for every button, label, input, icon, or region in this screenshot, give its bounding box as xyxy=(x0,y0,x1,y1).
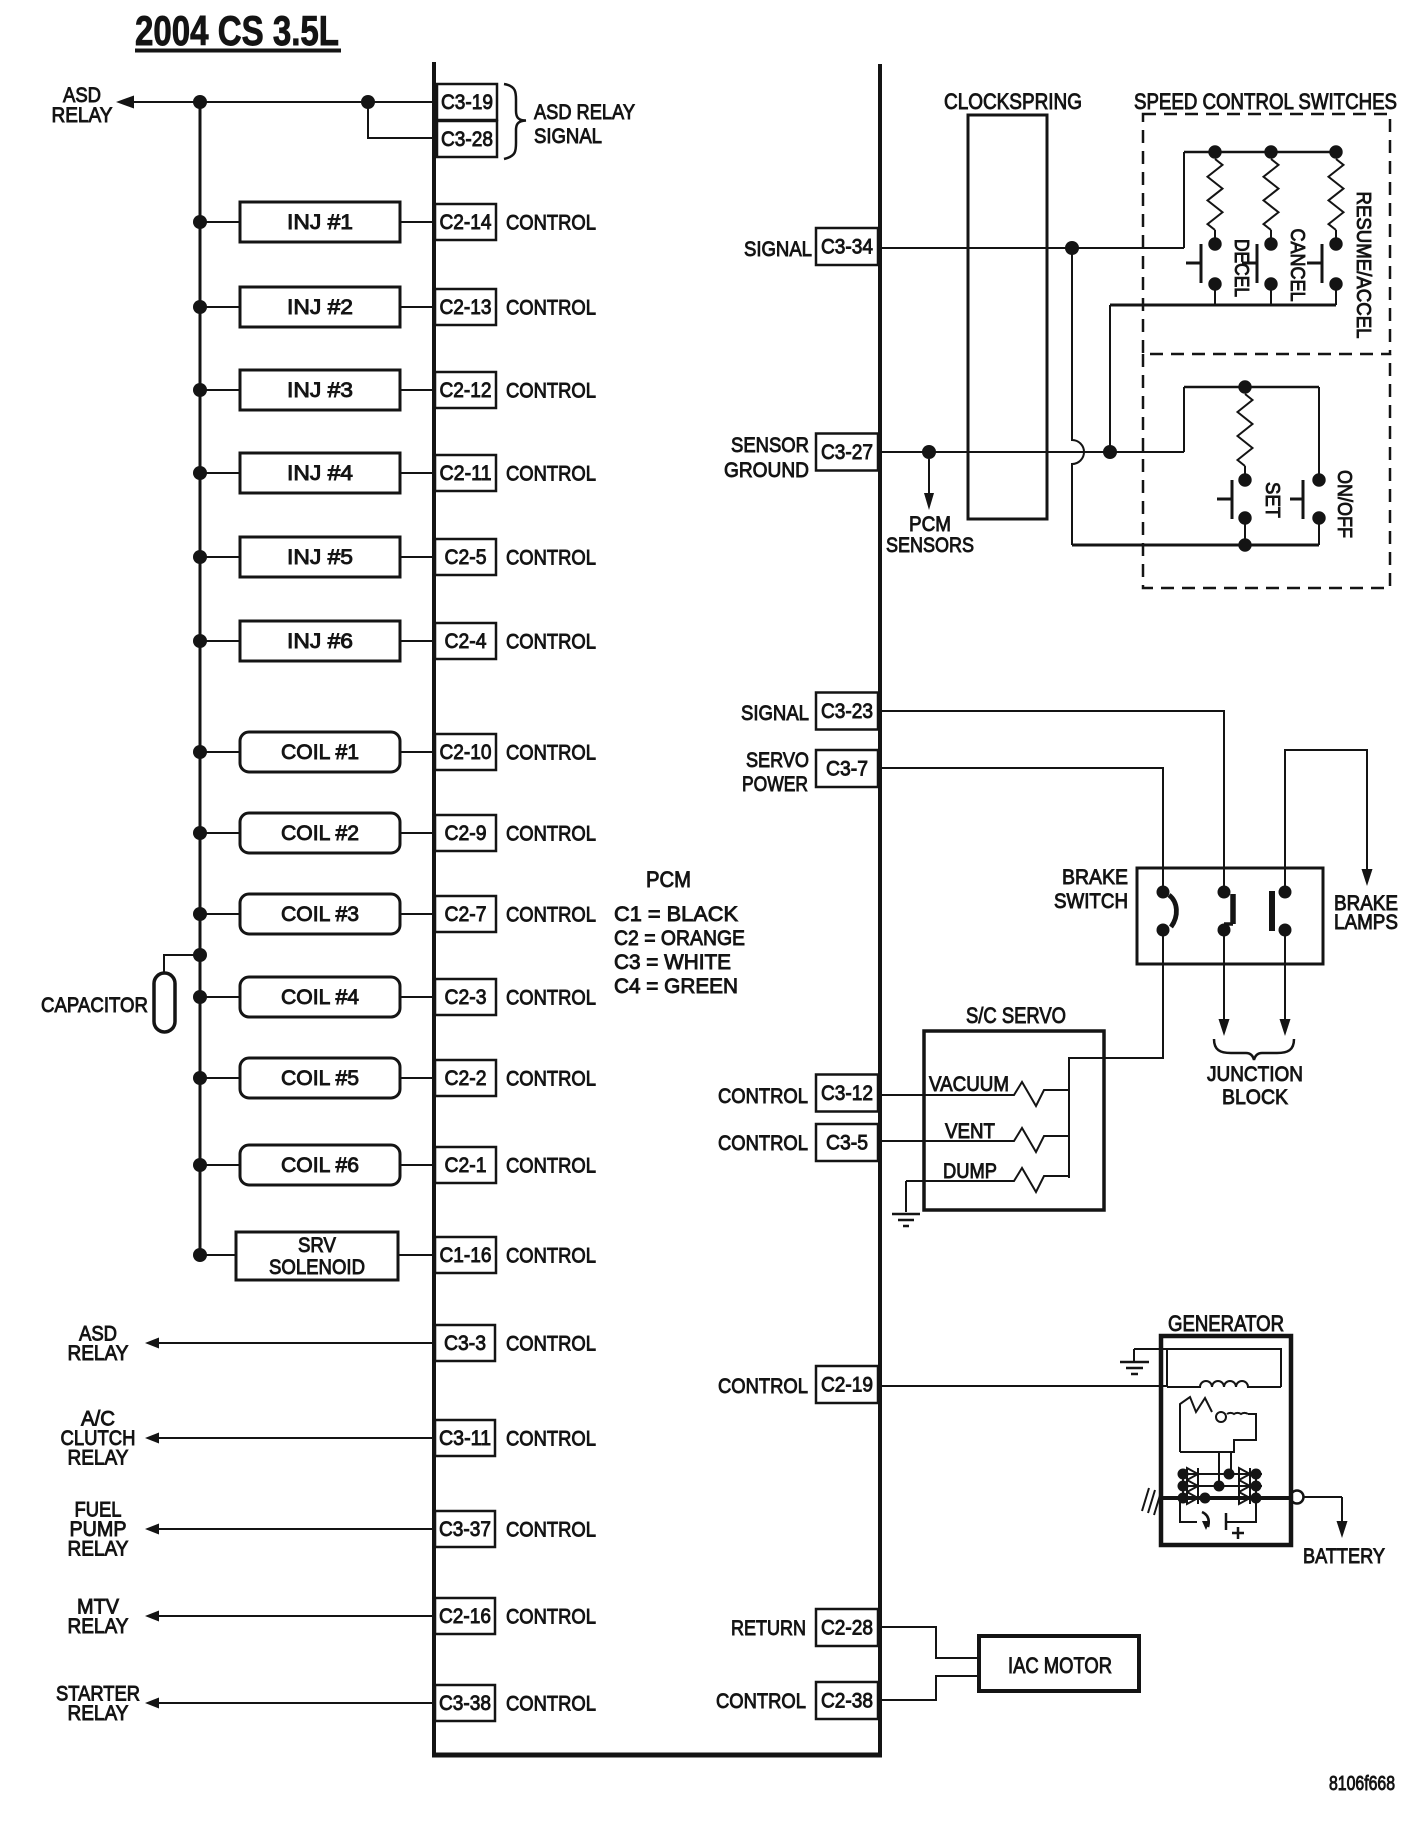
svg-text:SIGNAL: SIGNAL xyxy=(744,238,812,261)
svg-text:CONTROL: CONTROL xyxy=(718,1085,808,1108)
svg-text:C3-11: C3-11 xyxy=(439,1427,491,1450)
svg-text:C2-13: C2-13 xyxy=(440,296,492,319)
svg-text:C2-28: C2-28 xyxy=(821,1617,873,1640)
svg-text:C3-5: C3-5 xyxy=(826,1132,868,1155)
svg-text:C2-12: C2-12 xyxy=(440,379,492,402)
svg-text:C1 = BLACK: C1 = BLACK xyxy=(614,903,738,926)
svg-text:C3-7: C3-7 xyxy=(826,758,868,781)
svg-text:C3-34: C3-34 xyxy=(821,236,873,259)
svg-text:SOLENOID: SOLENOID xyxy=(269,1256,365,1279)
svg-text:C3-23: C3-23 xyxy=(821,700,873,723)
svg-text:GENERATOR: GENERATOR xyxy=(1168,1311,1284,1336)
svg-text:INJ #5: INJ #5 xyxy=(287,546,353,569)
svg-text:C2 = ORANGE: C2 = ORANGE xyxy=(614,927,745,950)
svg-text:SWITCH: SWITCH xyxy=(1054,890,1128,913)
svg-text:CONTROL: CONTROL xyxy=(506,547,596,570)
svg-text:SERVO: SERVO xyxy=(746,749,809,772)
svg-text:INJ #1: INJ #1 xyxy=(287,211,353,234)
svg-text:CONTROL: CONTROL xyxy=(506,1606,596,1629)
svg-text:VACUUM: VACUUM xyxy=(929,1073,1009,1096)
svg-text:RELAY: RELAY xyxy=(68,1538,129,1561)
svg-text:C2-4: C2-4 xyxy=(445,630,487,653)
svg-text:COIL #5: COIL #5 xyxy=(281,1067,359,1090)
svg-text:SPEED CONTROL SWITCHES: SPEED CONTROL SWITCHES xyxy=(1134,89,1397,114)
svg-text:CONTROL: CONTROL xyxy=(506,297,596,320)
svg-text:CONTROL: CONTROL xyxy=(506,823,596,846)
svg-text:C2-19: C2-19 xyxy=(821,1374,873,1397)
svg-text:C3 = WHITE: C3 = WHITE xyxy=(614,951,731,974)
svg-text:CONTROL: CONTROL xyxy=(718,1375,808,1398)
svg-text:C4 = GREEN: C4 = GREEN xyxy=(614,975,738,998)
svg-text:COIL #4: COIL #4 xyxy=(281,986,359,1009)
svg-text:C2-2: C2-2 xyxy=(445,1067,487,1090)
svg-text:BRAKE: BRAKE xyxy=(1062,866,1128,889)
svg-text:C2-1: C2-1 xyxy=(445,1154,487,1177)
svg-text:SIGNAL: SIGNAL xyxy=(741,702,809,725)
svg-text:CONTROL: CONTROL xyxy=(506,631,596,654)
svg-text:C3-12: C3-12 xyxy=(821,1082,873,1105)
svg-text:CONTROL: CONTROL xyxy=(506,1245,596,1268)
svg-text:CAPACITOR: CAPACITOR xyxy=(41,994,148,1017)
svg-text:INJ #2: INJ #2 xyxy=(287,296,353,319)
svg-text:PCM: PCM xyxy=(909,513,951,536)
svg-text:INJ #3: INJ #3 xyxy=(287,379,353,402)
svg-text:SIGNAL: SIGNAL xyxy=(534,125,602,148)
svg-text:CONTROL: CONTROL xyxy=(506,380,596,403)
svg-text:CONTROL: CONTROL xyxy=(506,1519,596,1542)
svg-text:C2-16: C2-16 xyxy=(439,1605,491,1628)
svg-text:RETURN: RETURN xyxy=(731,1617,806,1640)
svg-text:CLOCKSPRING: CLOCKSPRING xyxy=(944,89,1082,114)
svg-text:C3-37: C3-37 xyxy=(439,1518,491,1541)
svg-text:CONTROL: CONTROL xyxy=(506,1428,596,1451)
svg-text:C2-10: C2-10 xyxy=(440,741,492,764)
svg-text:RELAY: RELAY xyxy=(68,1447,129,1470)
svg-text:DUMP: DUMP xyxy=(943,1160,997,1183)
svg-text:RELAY: RELAY xyxy=(68,1615,129,1638)
svg-text:RELAY: RELAY xyxy=(68,1342,129,1365)
svg-text:COIL #6: COIL #6 xyxy=(281,1154,359,1177)
svg-text:ASD RELAY: ASD RELAY xyxy=(534,101,635,124)
svg-text:C3-28: C3-28 xyxy=(441,128,493,151)
svg-text:C2-3: C2-3 xyxy=(445,986,487,1009)
svg-text:CONTROL: CONTROL xyxy=(506,742,596,765)
svg-text:S/C SERVO: S/C SERVO xyxy=(966,1003,1066,1028)
svg-text:2004 CS 3.5L: 2004 CS 3.5L xyxy=(135,7,339,54)
svg-text:VENT: VENT xyxy=(945,1120,995,1143)
svg-text:C2-9: C2-9 xyxy=(445,822,487,845)
svg-text:C3-27: C3-27 xyxy=(821,441,873,464)
svg-text:IAC MOTOR: IAC MOTOR xyxy=(1008,1653,1112,1678)
svg-text:CONTROL: CONTROL xyxy=(716,1690,806,1713)
svg-text:PCM: PCM xyxy=(646,867,691,892)
svg-text:CONTROL: CONTROL xyxy=(506,212,596,235)
svg-text:CONTROL: CONTROL xyxy=(506,1333,596,1356)
svg-text:CONTROL: CONTROL xyxy=(718,1132,808,1155)
svg-text:C3-19: C3-19 xyxy=(441,91,493,114)
svg-text:C2-38: C2-38 xyxy=(821,1690,873,1713)
svg-text:8106f668: 8106f668 xyxy=(1329,1773,1395,1795)
svg-text:JUNCTION: JUNCTION xyxy=(1207,1063,1303,1086)
svg-text:CONTROL: CONTROL xyxy=(506,1155,596,1178)
svg-text:BLOCK: BLOCK xyxy=(1222,1086,1288,1109)
svg-text:SENSOR: SENSOR xyxy=(731,434,809,457)
svg-text:SET: SET xyxy=(1261,482,1283,518)
svg-text:BATTERY: BATTERY xyxy=(1303,1545,1385,1568)
svg-text:CONTROL: CONTROL xyxy=(506,904,596,927)
svg-text:CONTROL: CONTROL xyxy=(506,463,596,486)
svg-text:SRV: SRV xyxy=(298,1234,336,1257)
svg-text:INJ #4: INJ #4 xyxy=(287,462,353,485)
svg-text:DECEL: DECEL xyxy=(1230,239,1252,297)
svg-text:COIL #2: COIL #2 xyxy=(281,822,359,845)
svg-text:RESUME/ACCEL: RESUME/ACCEL xyxy=(1352,192,1374,339)
svg-text:CONTROL: CONTROL xyxy=(506,1693,596,1716)
svg-text:COIL #3: COIL #3 xyxy=(281,903,359,926)
svg-text:C2-7: C2-7 xyxy=(445,903,487,926)
svg-text:C2-14: C2-14 xyxy=(440,211,492,234)
svg-text:COIL #1: COIL #1 xyxy=(281,741,359,764)
svg-text:CANCEL: CANCEL xyxy=(1286,229,1308,302)
svg-text:CONTROL: CONTROL xyxy=(506,987,596,1010)
svg-text:ON/OFF: ON/OFF xyxy=(1333,470,1355,538)
svg-text:C1-16: C1-16 xyxy=(440,1244,492,1267)
svg-text:LAMPS: LAMPS xyxy=(1334,911,1398,934)
svg-text:RELAY: RELAY xyxy=(52,104,113,127)
svg-text:C3-38: C3-38 xyxy=(439,1692,491,1715)
svg-text:RELAY: RELAY xyxy=(68,1702,129,1725)
svg-text:POWER: POWER xyxy=(742,773,808,796)
svg-text:C2-11: C2-11 xyxy=(440,462,492,485)
svg-text:C2-5: C2-5 xyxy=(445,546,487,569)
svg-text:C3-3: C3-3 xyxy=(444,1332,486,1355)
svg-text:SENSORS: SENSORS xyxy=(886,534,974,557)
svg-text:GROUND: GROUND xyxy=(724,459,809,482)
svg-text:CONTROL: CONTROL xyxy=(506,1068,596,1091)
svg-text:INJ #6: INJ #6 xyxy=(287,630,353,653)
